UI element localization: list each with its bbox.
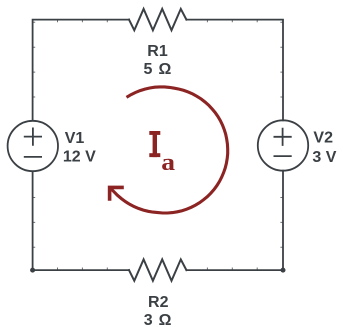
svg-text:V2: V2 [313, 130, 333, 147]
svg-text:3 Ω: 3 Ω [144, 312, 173, 327]
svg-text:V1: V1 [65, 130, 85, 147]
svg-text:12 V: 12 V [63, 149, 96, 166]
svg-text:R1: R1 [147, 43, 168, 60]
svg-text:5 Ω: 5 Ω [144, 61, 173, 78]
svg-text:a: a [161, 149, 175, 176]
svg-text:3 V: 3 V [312, 149, 336, 166]
svg-text:R2: R2 [148, 294, 169, 311]
